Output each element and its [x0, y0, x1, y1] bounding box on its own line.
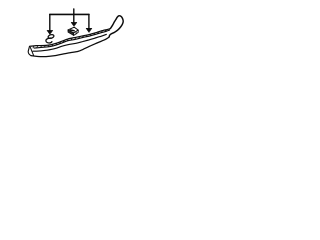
wire: left drop line: [49, 14, 51, 30]
box top face: [68, 27, 78, 33]
arrowhead left: [47, 30, 53, 34]
wire: center callout stem above bracket: [73, 9, 75, 14]
wire: right drop line: [88, 14, 90, 28]
moulding: band lower line (L2): [34, 30, 109, 48]
wire: center drop line: [73, 14, 75, 22]
moulding: hatch ticks on band: [33, 30, 106, 48]
clip C2: retainer box (3D) under center arrow: [68, 27, 78, 35]
arrowhead right: [86, 28, 92, 32]
moulding: left end cap crease: [30, 48, 33, 56]
box left side face: [68, 30, 74, 36]
moulding: bottom edge (L4): [31, 37, 109, 57]
box right face rib: [75, 32, 77, 34]
wire: bracket horizontal bar: [50, 13, 89, 15]
clip C1: S-shaped fastener icon under left arrow: [46, 34, 54, 43]
box right side face: [74, 30, 79, 35]
moulding: left end cap outline: [28, 46, 31, 55]
moulding: crease line (L3): [33, 34, 106, 51]
box slot: [71, 29, 75, 32]
moulding: top edge (L1): [30, 29, 111, 47]
arrowhead center: [71, 22, 77, 26]
moulding: upturned right end tab loop: [109, 16, 123, 37]
